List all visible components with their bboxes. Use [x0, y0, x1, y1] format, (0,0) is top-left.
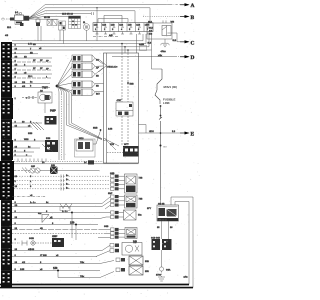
svg-text:E: E	[191, 132, 195, 138]
row 250	[12, 250, 102, 252]
bus corner risers	[143, 34, 152, 50]
svg-text:<HDM-1O>: <HDM-1O>	[107, 66, 119, 69]
module internal verticals	[122, 53, 128, 102]
svg-text:8MB: 8MB	[93, 128, 98, 130]
row 234 dashed	[12, 232, 104, 234]
bus wire y16.4	[45, 15, 69, 17]
switch lower pin wire	[15, 21, 20, 25]
svg-text:8MP: 8MP	[108, 193, 113, 195]
terminal boxes below relay	[152, 239, 161, 250]
wire to left of switch	[1, 18, 10, 21]
fuse element marks	[96, 26, 149, 28]
svg-text:M/S/1 (30): M/S/1 (30)	[164, 85, 178, 89]
bundle diagonals to module node	[67, 123, 103, 140]
pump lower wire	[44, 103, 46, 113]
svg-text:11B: 11B	[94, 25, 98, 27]
svg-text:1+ 1+: 1+ 1+	[30, 202, 36, 204]
bus branch wires into module	[122, 44, 128, 53]
connector row BU	[72, 89, 100, 96]
svg-text:74B: 74B	[133, 241, 137, 243]
arrow C	[173, 40, 195, 46]
bus wire y13.6	[45, 13, 91, 15]
strip wire 212 + GMP row	[12, 212, 72, 214]
arrow A	[170, 3, 195, 9]
fuse panel 11/11	[93, 23, 153, 32]
svg-text:8PY: 8PY	[147, 208, 152, 210]
stub wires to connector rows	[12, 58, 52, 74]
svg-text:18B: 18B	[51, 165, 55, 167]
svg-text:A/B: A/B	[109, 34, 113, 37]
small inline component	[140, 46, 147, 51]
svg-text:LINK: LINK	[163, 101, 171, 105]
fuse grid panel	[69, 16, 81, 29]
svg-text:8B 8B: 8B 8B	[44, 17, 50, 19]
unit 7x8	[98, 226, 137, 244]
bottom-left diode + fuse row	[12, 236, 64, 247]
svg-text:150: 150	[70, 221, 75, 225]
HDM-10 module box	[99, 53, 139, 163]
svg-text:55U: 55U	[145, 271, 149, 273]
bus wire y4.7 to arrow A	[45, 4, 170, 6]
W/B box	[45, 138, 58, 152]
svg-text:30 86 87: 30 86 87	[159, 220, 168, 222]
svg-text:4x8B: 4x8B	[139, 44, 145, 46]
relay unit top right	[147, 20, 177, 41]
svg-text:8798: 8798	[156, 275, 162, 277]
X component	[50, 165, 100, 174]
strip wires 148-156	[12, 148, 40, 156]
supply wire lower	[160, 106, 162, 200]
feed wire to supply	[152, 50, 163, 69]
svg-text:11B: 11B	[102, 25, 106, 27]
pump component AA	[22, 89, 52, 103]
unit 73B	[102, 193, 143, 209]
dash-dot branch wire	[93, 36, 118, 38]
svg-text:11B: 11B	[128, 25, 132, 27]
row 256	[12, 256, 97, 258]
svg-text:4/8xx: 4/8xx	[161, 51, 167, 53]
svg-text:11/8 8/8 18: 11/8 8/8 18	[62, 14, 74, 16]
fuse panel lower pins	[96, 32, 150, 35]
fuse GSA	[159, 250, 171, 276]
svg-text:1B/5: 1B/5	[145, 25, 150, 27]
ground 4/35	[156, 275, 165, 282]
connector stubs into 7MF	[111, 175, 125, 191]
fan from TWY node	[57, 58, 72, 94]
supply wire M/S/1 (30)	[155, 69, 177, 200]
svg-text:WT7: WT7	[124, 144, 129, 146]
svg-text:2B 1: 2B 1	[28, 76, 33, 78]
node blob below switch	[20, 23, 24, 26]
connector row AA	[72, 55, 99, 62]
svg-text:W88: W88	[24, 139, 29, 141]
long bus wires middle	[12, 41, 152, 50]
svg-text:B: B	[191, 15, 195, 21]
row 55U	[100, 266, 149, 278]
riser wires to bus	[60, 8, 97, 44]
dashed wire into WT	[107, 152, 123, 154]
connector row AF	[72, 63, 99, 70]
relay lower pins	[162, 221, 169, 239]
ground below relay	[161, 43, 170, 53]
strip pin squares	[3, 44, 10, 283]
tick row	[18, 159, 46, 162]
transistor symbol row 218	[12, 218, 100, 220]
bus wire y19.2	[45, 18, 59, 20]
connector row BB	[72, 81, 99, 88]
svg-text:TOP: TOP	[53, 236, 58, 238]
crossing slashes component	[28, 122, 44, 135]
scan speckle texture	[1, 0, 200, 297]
svg-text:W10: W10	[79, 138, 84, 140]
fuse holder pair	[47, 20, 57, 26]
ignition switch S1	[10, 12, 29, 20]
strip wire 140	[12, 140, 45, 142]
svg-text:G8A: G8A	[166, 269, 171, 272]
W10 box	[75, 138, 96, 157]
long pair wires at 161	[14, 161, 103, 163]
small connector box	[59, 21, 66, 30]
round connector symbol	[83, 22, 90, 30]
connector PNP inside module	[116, 100, 133, 116]
WT unit dark box	[123, 144, 139, 156]
wire row 196.5	[12, 196, 46, 198]
strip wires at 83/87	[12, 84, 50, 88]
svg-text:A: A	[191, 3, 195, 9]
relay 2/32 bottom right	[147, 204, 179, 222]
svg-text:G18 G18: G18 G18	[151, 237, 161, 239]
connector row AB	[72, 71, 99, 78]
svg-text:73B: 73B	[139, 199, 143, 201]
node fan on module left edge	[103, 129, 119, 151]
svg-text:11B: 11B	[136, 25, 140, 27]
strip wires 123/127	[12, 123, 42, 127]
dotted wires rows	[14, 175, 110, 177]
module right edge wires	[139, 125, 147, 134]
svg-text:D: D	[191, 55, 195, 61]
svg-text:150: 150	[53, 266, 58, 270]
svg-text:53H: 53H	[145, 261, 149, 263]
TWY node	[56, 85, 59, 88]
wire W10 to EGR node	[93, 131, 101, 145]
svg-text:11B: 11B	[119, 25, 123, 27]
row output converge wires	[95, 58, 104, 91]
svg-text:E3B: E3B	[130, 84, 135, 86]
svg-text:B/U: B/U	[96, 94, 100, 96]
GB twin circles	[14, 166, 50, 173]
svg-text:WB: WB	[171, 22, 175, 24]
frame bottom double bus	[0, 284, 189, 286]
svg-text:4/5 88: 4/5 88	[28, 249, 35, 251]
bus wire y10.8	[45, 11, 135, 23]
row 270 with node 150	[12, 270, 100, 272]
svg-text:G8J: G8J	[31, 166, 35, 168]
routed wire relay to bottom bus inner	[175, 202, 189, 285]
svg-text:3LB: 3LB	[149, 28, 153, 30]
vertical bundle	[59, 94, 64, 160]
svg-text:4797: 4797	[117, 100, 123, 102]
unit 74B	[125, 174, 143, 193]
row 53H	[100, 256, 149, 265]
branch down from node	[58, 271, 100, 278]
svg-text:GB 8B: GB 8B	[158, 204, 165, 206]
svg-text:JT 888: JT 888	[40, 255, 47, 257]
fusible link jog	[155, 90, 160, 104]
svg-text:11B: 11B	[111, 25, 115, 27]
wires from PNP down to WT	[122, 116, 128, 146]
svg-text:G8B: G8B	[104, 226, 109, 228]
row with round gauge	[96, 241, 142, 257]
svg-text:74B: 74B	[139, 178, 143, 180]
svg-text:TWY: TWY	[42, 86, 48, 90]
relay supply pin	[160, 200, 162, 205]
wire fan from ignition switch	[29, 5, 45, 20]
row 263	[12, 263, 100, 265]
node BO	[160, 145, 162, 147]
svg-text:BO: BO	[164, 147, 167, 149]
row 224 with node	[12, 224, 98, 226]
arrow E	[139, 131, 195, 137]
row 229	[12, 229, 104, 231]
connector pair 15/1	[36, 17, 41, 41]
left connector strip	[0, 42, 14, 288]
routed wire relay to bottom bus outer	[171, 197, 193, 288]
svg-text:PMP: PMP	[50, 109, 56, 113]
connector block below pump	[45, 116, 57, 125]
bus wire y7.8	[45, 8, 150, 23]
strip wires 203/206	[12, 204, 102, 207]
svg-text:HDH: HDH	[149, 131, 154, 133]
riser from fuse row crossing buses	[136, 34, 138, 53]
relay ground pin	[164, 39, 166, 43]
arrow D	[112, 55, 195, 61]
arrow B	[143, 15, 195, 21]
svg-text:GGB: GGB	[29, 238, 34, 240]
strip wires upper group	[12, 53, 38, 55]
